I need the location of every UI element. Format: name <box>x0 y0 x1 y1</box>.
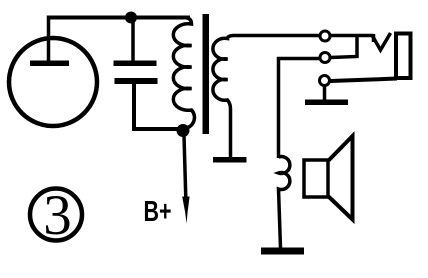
node junction J1 <box>125 12 137 24</box>
tube plate lead wire <box>47 16 51 64</box>
capacitor C1 top lead wire <box>131 18 135 62</box>
ground (below secondary) <box>213 157 247 163</box>
wire top horizontal (plate to coil) <box>47 16 190 20</box>
wire T2 right up to T1 wire <box>331 34 358 58</box>
wire T1 right to jack contact <box>331 34 374 42</box>
output coil L2 <box>279 157 290 248</box>
ground (jack) <box>305 100 348 106</box>
transformer T1 secondary coil <box>213 36 320 159</box>
B+ supply arrow <box>184 136 186 198</box>
capacitor C1 bottom lead wire <box>134 84 181 129</box>
ground (output) <box>261 248 304 255</box>
wire T3 right to plug sleeve <box>331 79 398 82</box>
terminal circle 2 <box>320 53 330 63</box>
speaker LS1 box <box>304 160 328 197</box>
capacitor C1 top plate <box>114 61 157 67</box>
speaker LS1 horn <box>329 136 353 220</box>
terminal circle 3 <box>320 76 330 86</box>
transformer T1 primary coil <box>173 18 194 129</box>
wire T2 left and down to output coil <box>279 59 320 159</box>
svg-text:B+: B+ <box>144 196 172 228</box>
ground stub at T3 <box>323 86 327 101</box>
transformer core <box>203 14 210 134</box>
node junction J2 <box>177 124 190 137</box>
terminal circle 1 <box>320 31 330 41</box>
figure number circle <box>30 189 82 241</box>
tube V1 envelope <box>9 38 97 126</box>
capacitor C1 bottom plate <box>115 78 158 84</box>
svg-text:3: 3 <box>43 184 72 247</box>
jack spring contact V <box>373 33 391 50</box>
tube plate bar <box>30 61 69 67</box>
phone plug body <box>396 34 411 79</box>
